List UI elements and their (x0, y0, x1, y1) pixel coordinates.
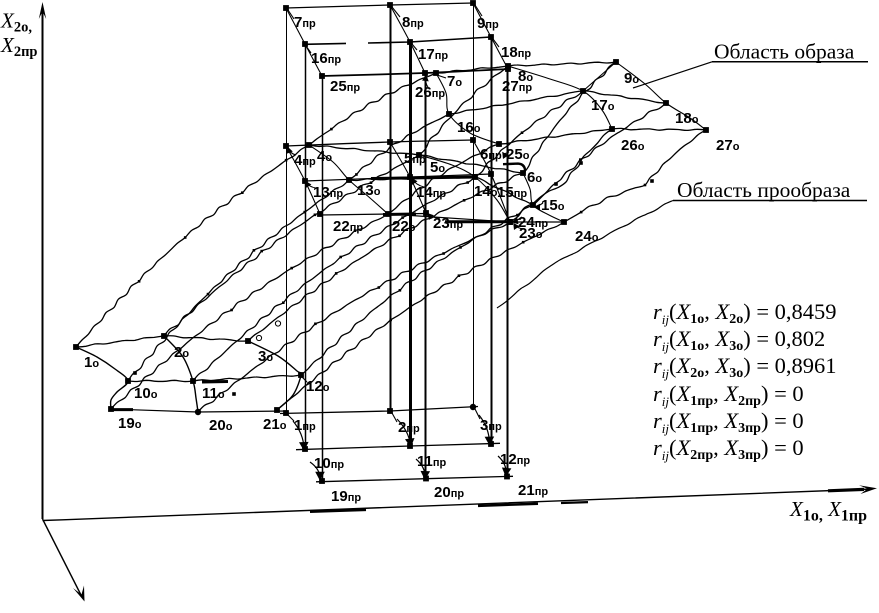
wire projection arrow (397, 419, 411, 445)
wire arc 8o-17o-26o (508, 66, 612, 129)
node pearl dot (522, 172, 525, 175)
node 20o (195, 409, 201, 415)
svg-text:rij(X2пр, X3пр) = 0: rij(X2пр, X3пр) = 0 (653, 435, 804, 463)
node 23o (507, 219, 513, 225)
wire projection arrow (293, 421, 304, 449)
wire curve 16o-17o-18o (449, 91, 666, 114)
wire leader (513, 217, 522, 222)
node pearl dot (410, 158, 413, 161)
wire leader tick (475, 409, 480, 419)
wire curve 10o-16o (128, 114, 449, 381)
node 25пр (319, 73, 325, 79)
svg-text:Область прообраза: Область прообраза (677, 178, 851, 202)
node 15пр (488, 171, 494, 177)
node 7пр (283, 5, 289, 11)
node pearl dot (260, 250, 263, 253)
wire row edge 13пр-15пр (305, 174, 491, 181)
node pearl dot (516, 214, 519, 217)
wire depth edge 9пр-27пр (473, 3, 508, 69)
wire curve 1o-7o (76, 73, 436, 347)
wire leader tick (437, 75, 446, 78)
wire curve 20o-26o (198, 129, 612, 412)
node 6o (520, 170, 526, 176)
node pearl dot (314, 214, 317, 217)
node pearl dot (580, 211, 583, 214)
node small dot (133, 371, 137, 375)
wire leader (306, 182, 316, 188)
node 3o (245, 338, 251, 344)
node 9пр (470, 0, 476, 6)
node pearl dot (401, 216, 404, 219)
node 13пр (302, 178, 308, 184)
wire leader tick (392, 7, 400, 17)
node 21пр (504, 474, 510, 480)
wire projection arrow (498, 456, 506, 474)
wire vertical edge 26пр-20пр (425, 73, 427, 479)
node 27o (703, 127, 709, 133)
axis bold dashes on X1 (310, 510, 366, 512)
node pearl dot (290, 267, 293, 270)
axis X3 down-left (43, 519, 85, 602)
label axis X1 (789, 497, 867, 525)
wire vertical edge 9пр-3пр (473, 3, 475, 407)
node 12o (298, 372, 304, 378)
node small dot (650, 179, 654, 183)
axis X2 vertical (39, 2, 46, 519)
node 11o (190, 378, 196, 384)
wire row edge 19пр-21пр (316, 476, 513, 482)
wire bold dash at 22o (383, 213, 416, 217)
wire leader tick (475, 5, 482, 16)
wire arc 7o-16o-25o (436, 73, 499, 144)
node 11пр (407, 443, 413, 449)
wire curve 3o-9o (248, 62, 616, 341)
node small dot (554, 182, 558, 186)
label Область прообраза (497, 178, 867, 308)
node pearl dot (458, 274, 461, 277)
node 3пр (470, 404, 476, 410)
node pearl dot (184, 236, 187, 239)
node pearl dot (522, 241, 525, 244)
node pearl dot (335, 272, 338, 275)
label axis X2 (0, 9, 38, 61)
node pearl dot (459, 246, 462, 249)
wire curve 19o-25o (111, 144, 499, 409)
node 19o (108, 406, 114, 412)
node 8пр (387, 2, 393, 8)
node pearl dot (378, 286, 381, 289)
node pearl dot (521, 131, 524, 134)
wire curve 2o-8o (164, 66, 508, 336)
wire depth edge 7пр-25пр (286, 8, 322, 76)
wire leader (288, 148, 296, 155)
wire depth edge 5пр-23пр (390, 142, 426, 213)
node 7o (433, 70, 439, 76)
wire leader (426, 76, 428, 87)
wire bracket leader 25o-6o (503, 164, 525, 174)
node 5пр (387, 139, 393, 145)
node open circle on curve (256, 335, 261, 340)
wire arc 2o-11o-20o (164, 336, 198, 412)
node 22o (385, 211, 391, 217)
node pearl dot (389, 319, 392, 322)
wire vertical edge 25пр-19пр (322, 76, 324, 481)
node 16o (446, 111, 452, 117)
wire arc 3o-12o-21o (248, 341, 301, 410)
wire curve 12o-18o (301, 103, 666, 375)
wire curve 10o-11o-12o (128, 375, 301, 382)
wire leader (412, 179, 424, 187)
node 25o (496, 141, 502, 147)
node open circle on curve 2 (275, 321, 280, 326)
wire curve 25o-26o-27o (499, 128, 706, 144)
wire arc 6o-15o-24o (523, 173, 564, 222)
wire leader tick (288, 415, 294, 421)
wire curve 13o-14o-15o (349, 177, 533, 205)
node 13o (346, 177, 352, 183)
svg-text:rij(X1пр, X2пр) = 0: rij(X1пр, X2пр) = 0 (653, 381, 804, 409)
node 14пр (407, 174, 413, 180)
wire bold edge 23пр-24пр (445, 220, 512, 223)
node pearl dot (330, 128, 333, 131)
node pearl dot (303, 211, 306, 214)
node pearl dot (253, 249, 256, 252)
node 22пр (317, 211, 323, 217)
node 8o (505, 63, 511, 69)
wire depth edge 6пр-24пр (473, 140, 510, 222)
wire curve 21o-27o (277, 130, 706, 410)
wire bold dash at 19o (112, 408, 133, 411)
wire leader tick (306, 46, 311, 53)
node 17пр (407, 39, 413, 45)
node small dot (579, 161, 583, 165)
wire leader tick (412, 44, 417, 50)
node pearl dot (339, 256, 342, 259)
point labels (84, 14, 740, 505)
wire leader tick (392, 413, 397, 422)
wire vertical edge 8пр-2пр (390, 5, 392, 411)
node 2o (161, 333, 167, 339)
wire curve 4o-5o-6o (309, 145, 523, 173)
node 2пр (387, 408, 393, 414)
svg-text:Область образа: Область образа (714, 40, 855, 64)
node 20пр (423, 476, 429, 482)
wire vertical edge 16пр-10пр (305, 44, 307, 449)
wire leader tick (493, 39, 499, 47)
node pearl dot (354, 229, 357, 232)
node 9o (613, 59, 619, 65)
node 19пр (319, 478, 325, 484)
wire depth edge 8пр-26пр (390, 5, 425, 73)
wire leader (514, 224, 524, 229)
node pearl dot (355, 173, 358, 176)
node pearl dot (399, 289, 402, 292)
node 24o (561, 219, 567, 225)
wire curve 1o-2o-3o (76, 336, 248, 347)
node 26пр (422, 70, 428, 76)
node pearl dot (282, 301, 285, 304)
node 10пр (302, 446, 308, 452)
node pearl dot (466, 181, 469, 184)
wire arc 1o-10o-19o (76, 347, 128, 409)
wire leader (535, 203, 543, 207)
node 12пр (488, 441, 494, 447)
node pearl dot (644, 184, 647, 187)
node 26o (609, 126, 615, 132)
node pearl dot (579, 158, 582, 161)
node pearl dot (207, 293, 210, 296)
wire row edge 10пр-12пр (296, 443, 500, 449)
node 18пр (488, 34, 494, 40)
node 1o (73, 344, 79, 350)
axis X1 horizontal (43, 485, 878, 520)
wire curve 22o-23o-24o (388, 214, 564, 222)
node 1пр (283, 410, 289, 416)
svg-text:rij(X2о, X3о) = 0,8961: rij(X2о, X3о) = 0,8961 (653, 353, 837, 381)
node 16пр (302, 41, 308, 47)
wire arc 4o-13o-22o (309, 145, 388, 214)
node 17o (580, 88, 586, 94)
svg-text:rij(X1о, X2о) = 0,8459: rij(X1о, X2о) = 0,8459 (653, 299, 837, 327)
wire projection arrow (416, 459, 425, 478)
wire row edge 7пр-9пр (286, 3, 473, 8)
wire row edge 4пр-6пр (286, 140, 473, 146)
correlation formulas (653, 299, 837, 463)
wire leader (428, 214, 440, 218)
wire arc 5o-14o-23o (419, 155, 510, 222)
node pearl dot (314, 323, 317, 326)
wire depth edge 4пр-22пр (286, 146, 320, 214)
wire curve 19o-20o-21o (111, 409, 288, 412)
wire leader tick (302, 377, 307, 382)
node pearl dot (230, 309, 233, 312)
node 5o (416, 152, 422, 158)
wire row edge 16пр-17пр-18пр with gap (305, 42, 346, 45)
node 21o (274, 407, 280, 413)
wire vertical edge 18пр-12пр (491, 37, 493, 444)
wire arc 9o-18o-27o (616, 62, 706, 130)
node 4o (306, 142, 312, 148)
node pearl dot (463, 199, 466, 202)
node 23пр (423, 210, 429, 216)
node small dot (232, 392, 236, 396)
node pearl dot (509, 221, 512, 224)
node pearl dot (138, 280, 141, 283)
wire segment 17o-9o (583, 62, 616, 91)
wire row edge 25пр-27пр (322, 69, 508, 76)
node pearl dot (370, 181, 373, 184)
node 15o (530, 202, 536, 208)
wire projection arrow (310, 462, 320, 478)
svg-text:rij(X1пр, X3пр) = 0: rij(X1пр, X3пр) = 0 (653, 408, 804, 436)
wire projection arrow (479, 415, 490, 443)
node 27пр (505, 66, 511, 72)
node 24пр (507, 219, 513, 225)
node pearl dot (442, 252, 445, 255)
node pearl dot (285, 159, 288, 162)
label Область образа (633, 40, 868, 89)
node 4пр (283, 143, 289, 149)
wire vertical edge 27пр-21пр (507, 69, 509, 477)
wire vertical edge 7пр-1пр (286, 8, 288, 413)
wire vertical edge 17пр-11пр (409, 42, 412, 446)
node pearl dot (241, 191, 244, 194)
node 14o (472, 174, 478, 180)
wire leader (503, 152, 509, 154)
node pearl dot (398, 235, 401, 238)
node 6пр (470, 137, 476, 143)
wire curve 7o-8o-9o (436, 62, 616, 73)
wire bold edge 13пр-14o (371, 177, 477, 179)
node 10o (125, 378, 131, 384)
wire curve 11o-17o (193, 91, 583, 381)
wire row edge 22пр-23пр (320, 214, 426, 216)
wire leader tick (288, 10, 294, 19)
wire row edge 1пр-3пр (280, 407, 478, 414)
node 18o (663, 100, 669, 106)
wire bold dash at 11o (202, 380, 228, 384)
